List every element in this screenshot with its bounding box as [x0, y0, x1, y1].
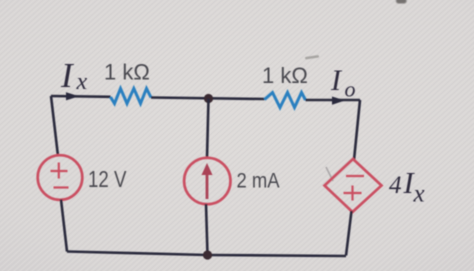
photo smudge top edge [396, 0, 407, 4]
current arrow Io on top-right wire [332, 97, 345, 105]
wire: right vertical lower [346, 211, 352, 256]
wire: top right segment [306, 99, 361, 102]
wire: top middle segment [151, 98, 265, 100]
svg-text:12 V: 12 V [88, 167, 127, 192]
wire: middle vertical upper [207, 99, 209, 159]
svg-text:4: 4 [389, 172, 402, 199]
wire: left vertical lower [61, 200, 67, 252]
current source I1 2mA [184, 158, 230, 204]
voltage source V1 12V [38, 155, 83, 200]
wire: bottom horizontal [67, 252, 346, 257]
photo scratch near diamond [326, 167, 333, 181]
svg-text:o: o [345, 77, 356, 102]
node A (top middle junction dot) [204, 94, 213, 103]
svg-text:x: x [76, 69, 88, 95]
svg-text:1 kΩ: 1 kΩ [104, 60, 150, 85]
svg-text:1 kΩ: 1 kΩ [262, 63, 308, 88]
resistor R2 1 kOhm (right) [265, 93, 306, 108]
current arrow Ix on top-left wire [66, 92, 79, 100]
wire: left vertical upper [51, 96, 58, 156]
node B (bottom middle junction dot) [203, 250, 212, 259]
resistor R1 1 kOhm (left) [111, 89, 152, 104]
dependent source E1 4Ix (diamond) [325, 159, 382, 212]
wire: top-left horizontal segment [51, 95, 111, 98]
wire: right vertical upper [354, 100, 360, 160]
svg-text:x: x [413, 181, 425, 208]
wire: middle vertical lower [206, 204, 208, 255]
svg-text:2 mA: 2 mA [237, 169, 281, 192]
